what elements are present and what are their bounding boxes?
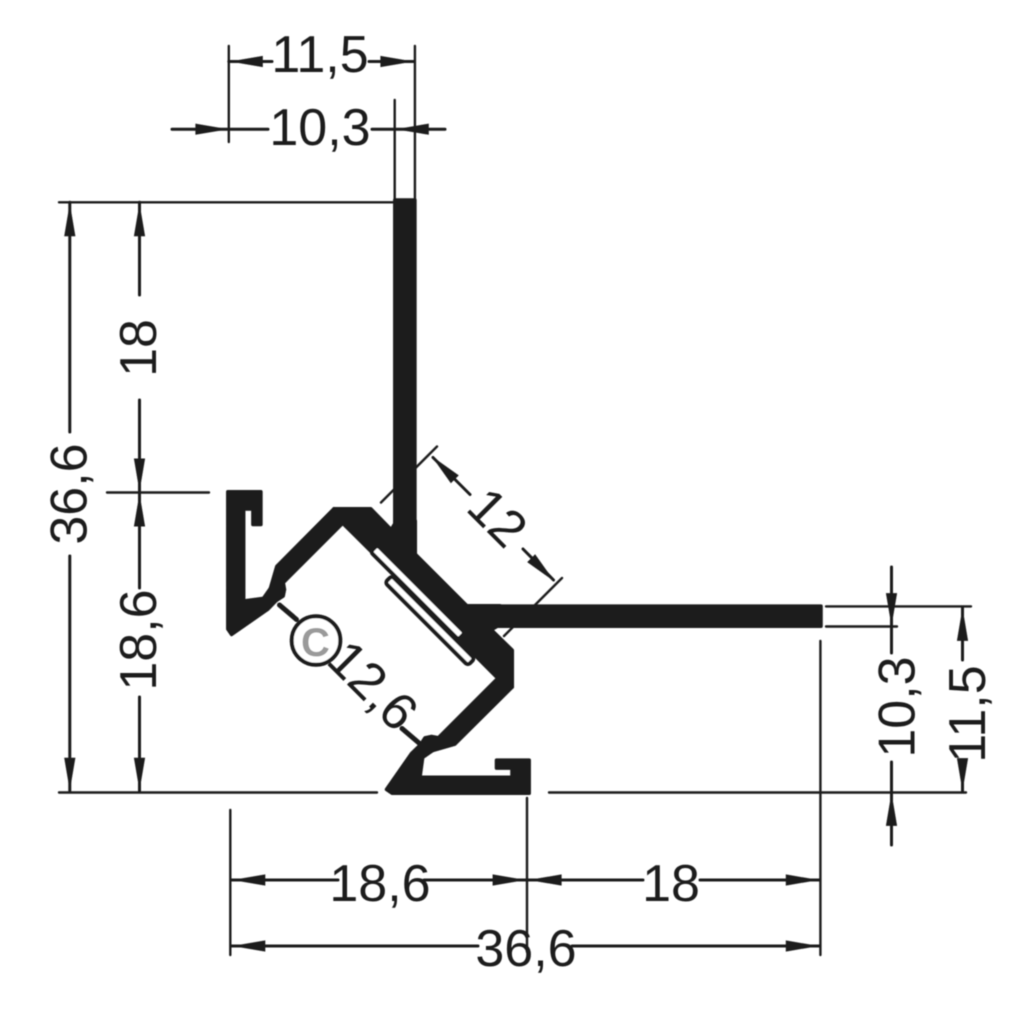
dash near foot lip — [402, 729, 419, 744]
strip block 2 (white slot w/ black outline) — [385, 576, 474, 665]
ext line x=394.7 (leg left edge, 10.3) — [394, 100, 396, 200]
svg-text:18: 18 — [110, 319, 168, 377]
ext line x=228.8 (bracket left, top dims) — [228, 46, 230, 142]
ext line y=202.3 (top of leg, left dims) — [59, 201, 394, 203]
dim 36,6 left — [68, 202, 71, 432]
svg-text:18,6: 18,6 — [329, 855, 430, 913]
dim 10,3 right (outside arrows w/ tails) — [890, 567, 893, 653]
ext line x=527 (hook outer edge, bottom dims) — [526, 798, 528, 952]
svg-text:10,3: 10,3 — [869, 656, 927, 757]
small dot near strip end — [481, 648, 488, 655]
dim 10,3 top (outside arrows w/ tails) — [172, 128, 229, 131]
12,6 leader dashes — [280, 605, 420, 743]
18,6 bottom arrows — [232, 874, 265, 885]
ext line for 12 dim upper (45 deg) — [381, 447, 437, 503]
dim 18 left — [138, 202, 141, 295]
dim 36,6 bottom — [231, 945, 478, 948]
ext line x=820.4 (bar end, bottom dims) — [819, 641, 821, 955]
svg-text:12: 12 — [456, 477, 538, 559]
12 arrows (45 deg) — [428, 452, 459, 483]
LED strip blocks on 45-deg face — [362, 545, 482, 665]
dim 12 shafts (45 deg) — [433, 458, 470, 495]
dim 18 bottom — [528, 879, 643, 882]
centre symbol: circle with gray C — [292, 616, 341, 665]
svg-text:11,5: 11,5 — [271, 26, 368, 84]
svg-text:18,6: 18,6 — [110, 589, 168, 690]
ext tick y=492.5 (bracket top level, 18/18.6 split) — [107, 491, 209, 493]
svg-text:36,6: 36,6 — [41, 443, 99, 544]
18 left arrows — [134, 203, 145, 236]
dim 11,5 right — [961, 607, 964, 660]
18 bottom arrows — [529, 874, 562, 885]
10,3 right arrows (outside) — [886, 593, 897, 626]
10,3 top arrows (outside) — [195, 124, 228, 135]
ext line x=414.9 (leg right edge, 11.5) — [414, 46, 416, 200]
ext line for 12 dim lower (45 deg) — [504, 578, 562, 636]
dash near wall1 lip — [280, 605, 297, 620]
svg-text:11,5: 11,5 — [939, 665, 997, 762]
dim 11,5 top — [229, 60, 272, 63]
dim 18,6 bottom — [231, 879, 338, 882]
36,6 left arrows — [64, 203, 75, 236]
18,6 left arrows — [134, 494, 145, 527]
svg-text:36,6: 36,6 — [475, 920, 576, 978]
11,5 right arrows — [957, 608, 968, 641]
11,5 top arrows — [230, 56, 263, 67]
svg-text:C: C — [301, 621, 330, 665]
dim 18,6 left — [138, 494, 141, 588]
svg-text:10,3: 10,3 — [269, 99, 370, 157]
svg-text:18: 18 — [642, 855, 700, 913]
ext line y=626.5 (bar bottom, right dims) — [826, 625, 897, 627]
baseline ext y=792.5 left segment — [59, 791, 377, 793]
36,6 bottom arrows — [232, 940, 265, 951]
ext line x=230.3 (bottom dims left) — [229, 810, 231, 955]
baseline ext y=792.5 right segment — [549, 791, 966, 793]
ext line y=606.4 (bar top, right dims) — [826, 605, 971, 607]
strip block 1 (white slot w/ black outline) — [371, 545, 465, 639]
